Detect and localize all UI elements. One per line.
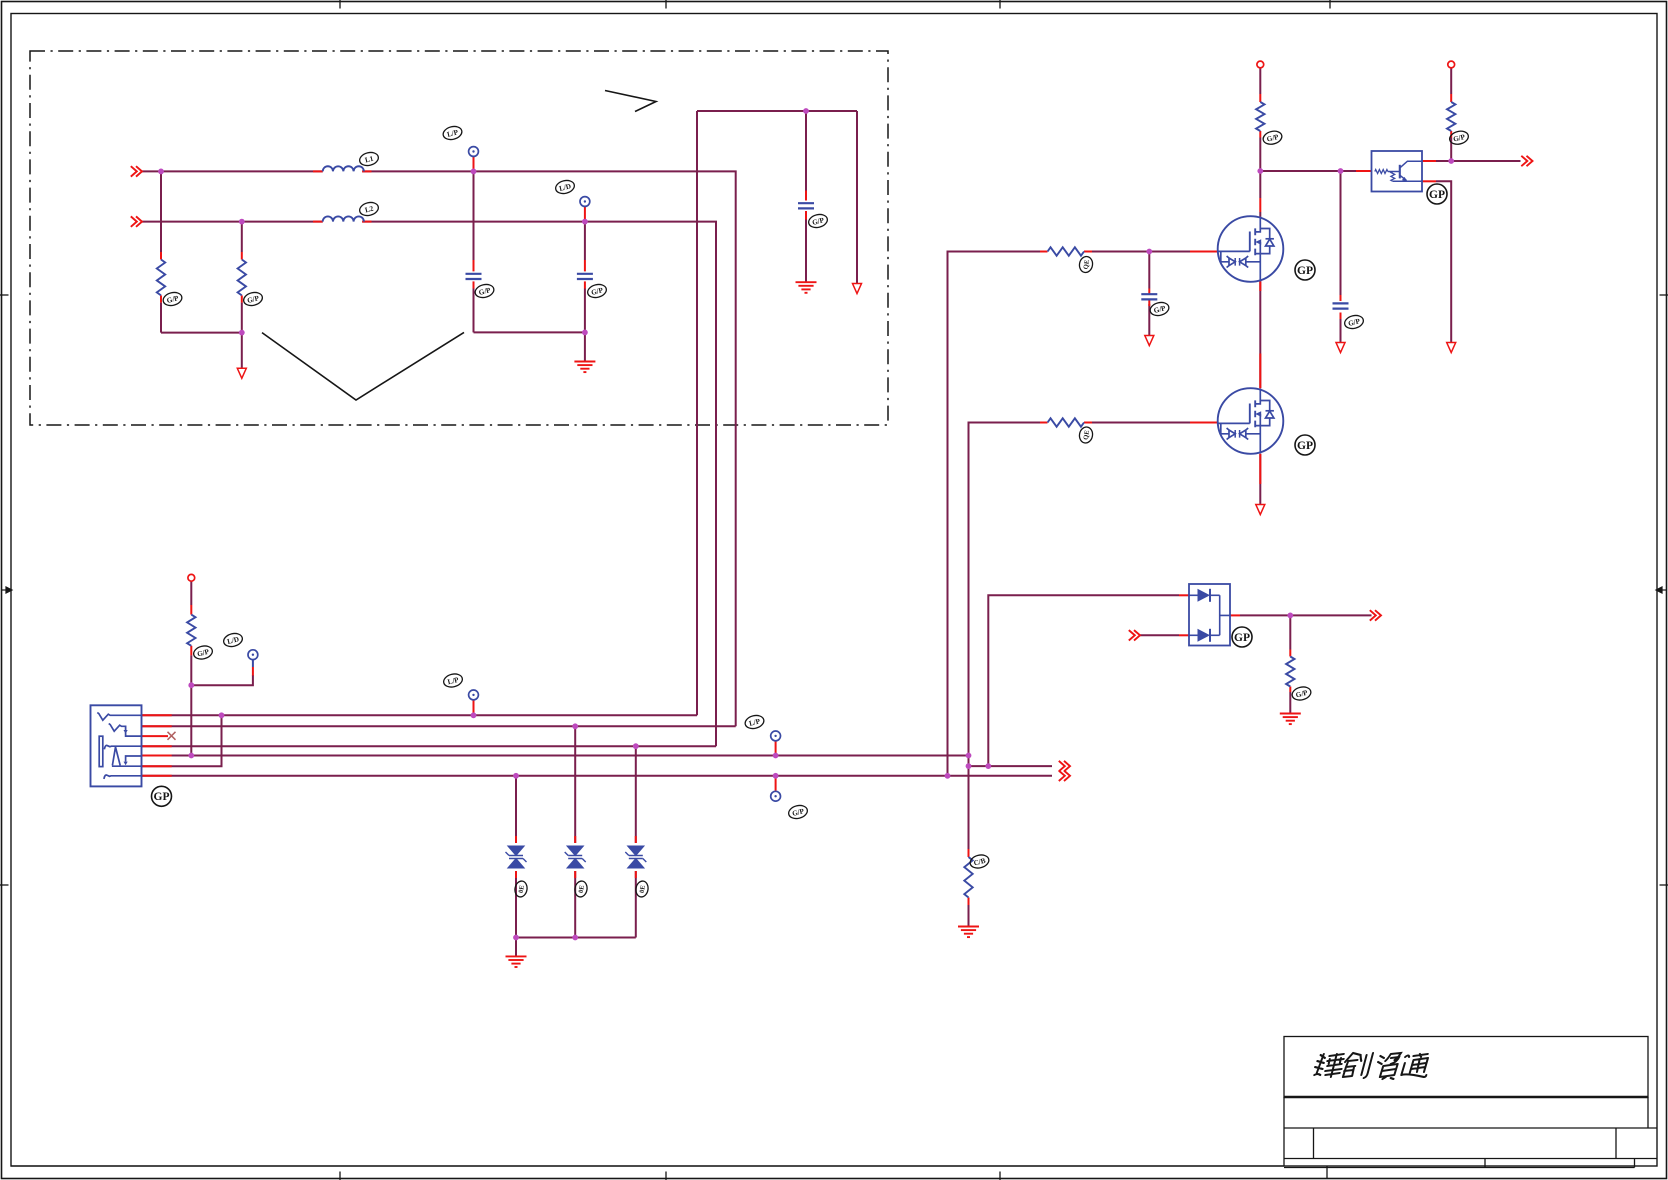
company name 緯創資通 (drawn strokes) (1313, 1054, 1345, 1077)
wire diode pulldown to ground (1289, 692, 1291, 714)
testpoint TP5 (771, 731, 781, 741)
wire R2 bottom lead (241, 303, 243, 333)
wire TVS3 top lead (635, 746, 637, 843)
wire jack pin4 (142, 745, 717, 747)
output port diode (1370, 610, 1381, 620)
junction (582, 219, 588, 225)
svg-text:0E: 0E (518, 884, 526, 893)
wire jack pin7 long (142, 775, 1053, 777)
svg-text:GP: GP (154, 791, 170, 803)
wire jack pin1 / shield (142, 714, 698, 716)
pin collector out (1422, 160, 1436, 162)
label TP2 (554, 179, 575, 196)
wire C1 top lead (473, 171, 475, 260)
wire diode output (1240, 614, 1372, 616)
pin stub (1230, 614, 1240, 616)
wire TVS ground rail (516, 937, 636, 939)
wire TVS3 bottom lead (635, 871, 637, 938)
pin stub (1259, 198, 1261, 212)
label C4 (1149, 301, 1170, 318)
wire jack pin2 (142, 725, 736, 727)
pin stub (160, 252, 162, 260)
resistor R1 (157, 260, 165, 296)
pin stub (574, 871, 576, 878)
output port (1521, 156, 1532, 166)
junction (471, 712, 477, 718)
label C2 (586, 283, 607, 300)
wire R3 to M1 drain (1259, 138, 1261, 199)
pin stub (1289, 650, 1291, 657)
junction (239, 330, 245, 336)
testpoint pin (252, 660, 254, 667)
resistor R9 (1286, 657, 1294, 687)
pin stub (1450, 94, 1452, 102)
junction (966, 753, 972, 759)
title block (11, 1037, 1657, 1179)
input port diode (1129, 630, 1140, 640)
pin stub (775, 741, 777, 753)
label C1 (474, 283, 495, 300)
junction (513, 935, 519, 941)
earth ground (1280, 714, 1301, 725)
left centering arrow (1, 587, 12, 593)
label GP connector J1 (152, 786, 172, 806)
wire TVS2 bottom lead (574, 871, 576, 938)
output port (1059, 771, 1070, 781)
wire collector to port (1436, 160, 1521, 162)
wire C2 top lead (584, 222, 586, 260)
label R1 (162, 291, 183, 308)
wire to ground arrow (241, 333, 243, 369)
testpoint TP1 (469, 147, 479, 157)
capacitor C4 (1141, 294, 1157, 299)
pin stub (362, 170, 371, 172)
pin stub (1259, 354, 1261, 389)
label C3 (807, 213, 828, 230)
svg-text:L1: L1 (364, 155, 374, 165)
junction (471, 169, 477, 175)
junction (572, 935, 578, 941)
pin stub (968, 898, 970, 906)
pin stub (1040, 251, 1048, 253)
dual diode D4 (1189, 584, 1230, 646)
label TP3 (222, 632, 243, 649)
testpoint TP6 (771, 791, 781, 801)
svg-text:QE: QE (1083, 429, 1092, 440)
junction (1287, 613, 1293, 619)
label R9 (1291, 685, 1312, 702)
label R3 (1262, 129, 1283, 146)
wire M1 gate net vertical+horiz (948, 252, 1041, 776)
ground arrow (1447, 343, 1456, 353)
pin stub (1340, 295, 1342, 301)
jack pin stub (142, 755, 172, 757)
junction (1338, 168, 1344, 174)
label C5 (1343, 314, 1364, 331)
jack pin stub (142, 765, 172, 767)
wire TVS1 bottom lead (515, 871, 517, 938)
wire C3 bottom lead (805, 220, 807, 283)
wire row1 left (142, 170, 323, 172)
label L2 (358, 201, 379, 218)
pin stub (515, 871, 517, 878)
pin stub (1040, 422, 1048, 424)
output port (1059, 761, 1070, 771)
pin stub (473, 700, 475, 713)
pin stub (190, 605, 192, 615)
wire C2 bottom lead (584, 289, 586, 333)
pin stub (313, 221, 323, 223)
junction (158, 169, 164, 175)
mosfet Q1 (1218, 216, 1284, 282)
wire to testpoint (191, 675, 253, 685)
resistor R6 gate M1 (1048, 247, 1085, 255)
wire diode input1 (988, 595, 1179, 766)
testpoint TP4 (469, 690, 479, 700)
earth ground (796, 282, 817, 293)
pin stub (1259, 281, 1261, 291)
label TP5 (744, 714, 765, 731)
wire pullup top lead (190, 581, 192, 605)
capacitor C3 (798, 203, 814, 208)
wire bottom resistor to ground (968, 905, 970, 927)
pin stub (1356, 170, 1372, 172)
pin stub (1450, 131, 1452, 138)
TVS diode D1 (506, 846, 527, 868)
no-connect X (168, 732, 176, 740)
resistor R7 gate M2 (1048, 418, 1085, 426)
label TP6 (787, 804, 808, 821)
label R2 (242, 291, 263, 308)
pin stub (775, 778, 777, 790)
svg-text:L2: L2 (364, 205, 374, 215)
junction (803, 108, 809, 114)
wire M2 net lower vertical (968, 756, 970, 850)
pin stub (473, 157, 475, 169)
pin stub (1179, 594, 1189, 596)
wire C5 top lead (1340, 171, 1342, 295)
junction (188, 682, 194, 688)
wire C5 to arrow (1340, 313, 1342, 343)
jack pin stub (142, 775, 172, 777)
capacitor C2 (577, 274, 593, 279)
label TP4 (442, 672, 463, 689)
EMI filter dash-dot boundary box (30, 51, 888, 425)
pin stub (160, 295, 162, 302)
pin stub (1289, 687, 1291, 693)
wire resistor ground rail (161, 332, 242, 334)
label GP mosfet Q1 (1295, 260, 1315, 280)
annotation chevron mark (605, 91, 656, 112)
jack pin stub (142, 745, 172, 747)
pin stub (584, 207, 586, 219)
pin stub (362, 221, 371, 223)
svg-text:GP: GP (1297, 440, 1313, 452)
resistor R3 (1256, 102, 1264, 131)
pin stub (574, 836, 576, 843)
jack pin3 stub (no connect) (142, 735, 169, 737)
wire R1 bottom lead (160, 303, 162, 333)
testpoint TP3 (248, 650, 258, 660)
wire M2 source to arrow (1259, 454, 1261, 505)
wire M2 gate to mosfet (1084, 422, 1190, 424)
label GP mosfet Q2 (1295, 435, 1315, 455)
inductor L2 (323, 216, 364, 221)
earth ground (574, 362, 595, 373)
label R8 (969, 853, 990, 870)
pin stub (313, 170, 323, 172)
label D2 (574, 880, 589, 898)
wire row2 left (142, 221, 323, 223)
junction (773, 753, 779, 759)
junction (773, 773, 779, 779)
pin stub (584, 260, 586, 271)
junction (985, 763, 991, 769)
label D3 (635, 880, 650, 898)
TVS diode D3 (625, 846, 646, 868)
capacitor C1 (466, 274, 482, 279)
label GP transistor Q3 (1427, 184, 1447, 204)
wire M1 gate cap to arrow (1148, 304, 1150, 336)
label R4 (1448, 129, 1469, 146)
wire to chassis arrow (856, 111, 858, 284)
wire row1 right + drop to jack pin2 (362, 171, 736, 726)
wire to earth ground (584, 332, 586, 361)
pin stub (1422, 180, 1436, 182)
pin stub (968, 849, 970, 857)
pin stub (805, 211, 807, 220)
annotation vee mark (262, 332, 464, 400)
wire M2 gate net vertical+horiz (969, 423, 1041, 756)
pin stub (473, 260, 475, 271)
wire M1 source to M2 drain (1259, 281, 1261, 388)
ground arrow (1145, 336, 1154, 346)
resistor R5 pullup (187, 615, 195, 646)
pin stub (1084, 422, 1092, 424)
wire C1 bottom lead (473, 289, 475, 333)
chassis ground arrow (853, 284, 862, 294)
junction (219, 712, 225, 718)
svg-text:0E: 0E (578, 884, 586, 893)
junction (1448, 158, 1454, 164)
pin stub (515, 836, 517, 843)
label R7 (1078, 426, 1094, 444)
pin stub (584, 281, 586, 288)
resistor R8 (964, 857, 972, 898)
label GP diode D4 (1232, 627, 1252, 647)
power symbol (1448, 61, 1455, 68)
input port row1 (131, 166, 142, 176)
wire emitter to arrow (1436, 181, 1451, 342)
pin stub (1148, 299, 1150, 306)
wire R1 top lead (160, 171, 162, 252)
label TP1 (442, 125, 463, 142)
pin stub (190, 646, 192, 656)
label R6 (1078, 255, 1094, 273)
TVS diode D2 (565, 846, 586, 868)
wire TVS1 top lead (515, 776, 517, 843)
jack pin stub (142, 725, 172, 727)
wire M1 drain stub (1259, 212, 1261, 217)
junction (582, 330, 588, 336)
label D1 (514, 880, 529, 898)
pin stub (241, 252, 243, 260)
pin stub (805, 191, 807, 201)
wire TVS2 top lead (574, 726, 576, 843)
junction (945, 773, 951, 779)
pin stub (1259, 131, 1261, 138)
earth ground (506, 956, 527, 967)
power symbol (188, 574, 195, 581)
wire to earth ground (515, 938, 517, 957)
pin stub (1084, 251, 1092, 253)
junction (513, 773, 519, 779)
wire R2 top lead (241, 222, 243, 252)
wire jack pin5 long (142, 755, 969, 757)
junction (239, 219, 245, 225)
wire diode pulldown top lead (1289, 615, 1291, 649)
pin stub (1148, 289, 1150, 295)
junction (633, 743, 639, 749)
ground arrow (1336, 343, 1345, 353)
pin stub (1179, 634, 1189, 636)
svg-text:QE: QE (1083, 259, 1092, 270)
wire C3 top lead (805, 111, 807, 191)
svg-text:GP: GP (1234, 632, 1250, 644)
pin stub (635, 871, 637, 878)
testpoint TP2 (580, 197, 590, 207)
pin stub (473, 281, 475, 288)
junction (188, 753, 194, 759)
junction (1146, 249, 1152, 255)
wire M1 gate cap lead (1148, 252, 1150, 289)
wire power to R3 (1259, 68, 1261, 94)
pin stub (1259, 94, 1261, 102)
pin stub (1190, 422, 1218, 424)
wire M1 gate to mosfet (1084, 251, 1190, 253)
svg-text:GP: GP (1429, 189, 1445, 201)
jack pin stub (142, 714, 172, 716)
resistor R2 (238, 260, 246, 296)
pin stub (1190, 251, 1218, 253)
wire pullup to pin5 (190, 655, 192, 755)
wire capacitor ground rail (474, 331, 585, 333)
pin stub (252, 667, 254, 676)
label R5 (192, 644, 213, 661)
pin stub (1340, 313, 1342, 320)
audio jack connector J1 (91, 705, 142, 786)
right centering arrow (1656, 587, 1667, 593)
pin stub (1259, 454, 1261, 484)
pin stub (635, 836, 637, 843)
wire shield net horizontal (697, 110, 857, 112)
mosfet Q2 (1218, 388, 1284, 454)
svg-text:GP: GP (1297, 265, 1313, 277)
digital transistor Q3 (1372, 151, 1423, 192)
ground arrow (237, 368, 246, 378)
junction (572, 723, 578, 729)
wire power to R4 (1450, 68, 1452, 94)
resistor R4 (1447, 102, 1455, 131)
wire R4 to collector node (1450, 138, 1452, 162)
earth ground (958, 927, 979, 938)
wire row2 right + drop to jack pin4 (362, 222, 716, 747)
wire shield net vertical (696, 111, 698, 715)
capacitor C5 (1333, 303, 1349, 308)
wire diode input2 (1140, 634, 1179, 636)
power symbol (1257, 61, 1264, 68)
junction (1257, 168, 1263, 174)
wire M1 drain to transistor (1260, 170, 1356, 172)
input port row2 (131, 216, 142, 226)
wire to output port1 (969, 765, 1053, 767)
inductor L1 (323, 166, 364, 171)
junction (966, 763, 972, 769)
svg-text:0E: 0E (639, 884, 647, 893)
pin stub (241, 295, 243, 302)
label L1 (358, 151, 379, 168)
ground arrow (1256, 505, 1265, 515)
wire jack pin6 join pin1 (142, 715, 222, 766)
